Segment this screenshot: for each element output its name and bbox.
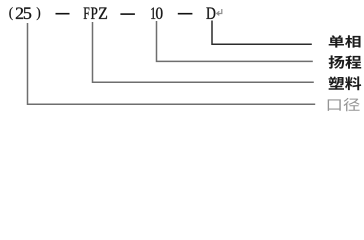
paragraph return mark bbox=[217, 9, 222, 15]
text Z of FPZ bbox=[99, 8, 107, 19]
dash separator 2 bbox=[120, 13, 134, 15]
text 5 of (25) bbox=[24, 7, 31, 19]
text ) of (25) bbox=[37, 7, 40, 20]
leader line from D to 单相 bbox=[212, 21, 312, 45]
dash separator 1 bbox=[56, 13, 70, 15]
label 单相 (single phase) bbox=[329, 35, 361, 48]
label 扬程 (head) bbox=[329, 55, 362, 68]
text 1 of 10 bbox=[151, 7, 155, 18]
label 塑料 (plastic) bbox=[329, 76, 362, 90]
leader line from (25) to 口径 bbox=[28, 23, 316, 104]
text F of FPZ bbox=[84, 8, 90, 19]
text D phase code bbox=[206, 8, 215, 19]
leader line from FPZ to 塑料 bbox=[93, 22, 314, 82]
text ( of (25) bbox=[9, 7, 12, 20]
dash separator 3 bbox=[178, 13, 193, 15]
text P of FPZ bbox=[91, 8, 97, 19]
text 2 of (25) bbox=[16, 8, 23, 19]
leader line from 10 to 扬程 bbox=[157, 21, 313, 61]
text 0 of 10 bbox=[156, 7, 162, 18]
label 口径 (bore diameter) bbox=[328, 98, 360, 111]
